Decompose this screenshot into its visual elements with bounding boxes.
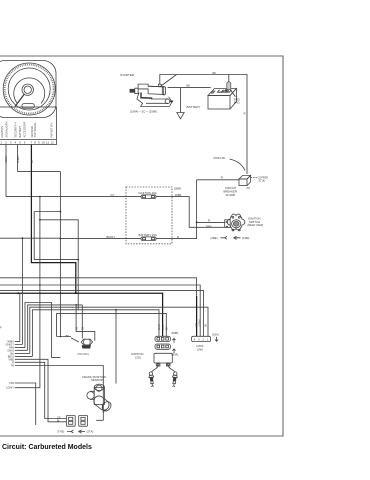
- svg-text:(P: (P: [0, 326, 2, 330]
- svg-text:BI: BI: [57, 420, 60, 423]
- svg-text:(19M): (19M): [242, 236, 249, 240]
- svg-text:FW NET (P): FW NET (P): [49, 123, 53, 137]
- svg-text:SENSOR: SENSOR: [91, 378, 103, 382]
- svg-text:V/W: V/W: [9, 381, 14, 385]
- svg-text:BN/GY: BN/GY: [107, 235, 116, 239]
- svg-text:BK: BK: [187, 84, 191, 88]
- svg-text:(REAR VIEW): (REAR VIEW): [248, 224, 264, 227]
- svg-text:(1994) —2C— (1998): (1994) —2C— (1998): [130, 110, 157, 114]
- svg-text:(91A): (91A): [212, 333, 219, 337]
- svg-text:BE: BE: [82, 326, 85, 330]
- svg-text:3: 3: [10, 141, 12, 145]
- svg-text:R: R: [221, 176, 223, 180]
- svg-text:IGNITION: IGNITION: [0, 126, 4, 138]
- svg-text:BK: BK: [66, 334, 70, 338]
- svg-text:6: 6: [24, 141, 26, 145]
- svg-text:BK: BK: [213, 71, 217, 75]
- svg-text:BK: BK: [104, 410, 108, 413]
- svg-text:10: 10: [42, 141, 46, 145]
- svg-text:11: 11: [46, 141, 49, 145]
- svg-text:BK: BK: [204, 323, 207, 327]
- svg-text:5: 5: [19, 141, 21, 145]
- svg-text:STUD: STUD: [259, 180, 266, 183]
- svg-text:BN/GY: BN/GY: [17, 155, 20, 163]
- svg-text:(2TA): (2TA): [87, 430, 94, 434]
- svg-text:GROUND: GROUND: [30, 126, 34, 138]
- svg-text:IGNITION 15A: IGNITION 15A: [139, 191, 157, 195]
- svg-text:BK: BK: [31, 159, 34, 163]
- svg-text:(TYB): (TYB): [57, 430, 64, 434]
- svg-text:LGN/Y: LGN/Y: [6, 386, 14, 390]
- svg-text:BATTERY: BATTERY: [187, 105, 201, 109]
- svg-text:( 5/O 16C ]: ( 5/O 16C ]: [77, 353, 90, 356]
- svg-text:GY: GY: [111, 193, 115, 197]
- svg-text:BAG: BAG: [234, 100, 240, 104]
- svg-text:4: 4: [194, 337, 196, 341]
- svg-text:BATTERY: BATTERY: [18, 126, 22, 138]
- svg-text:(2BE): (2BE): [211, 236, 218, 240]
- svg-text:R: R: [244, 112, 246, 116]
- svg-text:SWITCH: SWITCH: [249, 220, 260, 224]
- svg-text:(2BR): (2BR): [174, 186, 181, 190]
- svg-text:2: 2: [5, 141, 7, 145]
- svg-text:1: 1: [0, 141, 2, 145]
- svg-text:4: 4: [15, 141, 17, 145]
- svg-text:9: 9: [38, 141, 40, 145]
- svg-text:GY: GY: [165, 326, 168, 330]
- svg-text:R/BK: R/BK: [175, 193, 182, 197]
- svg-text:1: 1: [207, 337, 209, 341]
- svg-text:12: 12: [51, 141, 55, 145]
- svg-text:R: R: [208, 219, 210, 223]
- svg-text:R/BK: R/BK: [206, 225, 212, 228]
- svg-text:BE: BE: [75, 326, 78, 330]
- svg-text:(5): (5): [247, 186, 250, 190]
- svg-text:Y/BK: Y/BK: [162, 324, 165, 330]
- svg-text:Circuit: Carbureted Models: Circuit: Carbureted Models: [2, 444, 92, 451]
- svg-text:TSP SIGNAL: TSP SIGNAL: [33, 122, 37, 138]
- svg-text:72544-96: 72544-96: [213, 156, 225, 160]
- svg-text:SIGNAL/OPN: SIGNAL/OPN: [5, 122, 9, 138]
- svg-text:3: 3: [198, 337, 200, 341]
- svg-text:SECURITY #: SECURITY #: [14, 122, 18, 138]
- svg-text:COIL: COIL: [135, 355, 142, 359]
- svg-text:ACCESSORY: ACCESSORY: [23, 121, 27, 138]
- svg-text:STARTER: STARTER: [120, 73, 135, 77]
- svg-text:R: R: [177, 235, 179, 239]
- svg-text:7: 7: [31, 141, 33, 145]
- svg-text:(83B): (83B): [172, 331, 179, 335]
- svg-text:LGN/Y: LGN/Y: [5, 155, 8, 163]
- svg-text:30 AMP: 30 AMP: [226, 193, 236, 197]
- svg-text:LGN/V: LGN/V: [198, 319, 201, 327]
- svg-text:8: 8: [34, 141, 36, 145]
- svg-text:BK/R: BK/R: [158, 324, 161, 330]
- svg-text:2: 2: [202, 337, 204, 341]
- svg-text:TN: TN: [11, 364, 15, 368]
- svg-text:LINK: LINK: [197, 347, 203, 351]
